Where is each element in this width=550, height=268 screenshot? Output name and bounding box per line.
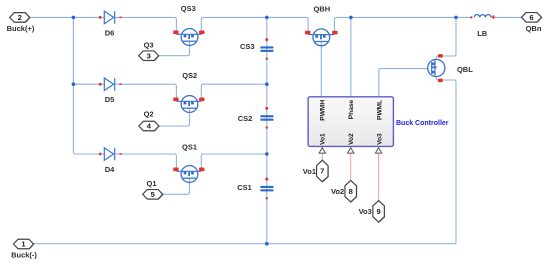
transistor QS2	[173, 71, 204, 112]
svg-text:Vo1: Vo1	[320, 133, 327, 145]
wire Vo1 input (salmon)	[321, 153, 323, 160]
port 3 Q3	[139, 41, 160, 62]
wire Phase tap from top rail	[350, 17, 352, 97]
wire QS1 source rise to CS bus	[201, 154, 266, 171]
wire top rail left from Buck(+) to D6	[30, 16, 105, 18]
svg-text:Vo2: Vo2	[331, 187, 344, 196]
wire QBL drain from top rail junction	[436, 17, 456, 59]
port 4 Q2	[139, 110, 160, 132]
svg-text:PWMH: PWMH	[320, 100, 327, 121]
transistor QS1	[173, 142, 204, 182]
svg-text:CS2: CS2	[238, 114, 253, 123]
svg-text:8: 8	[349, 187, 353, 196]
svg-text:QBL: QBL	[457, 65, 473, 74]
capacitor CS3	[240, 38, 273, 60]
svg-text:Phase: Phase	[348, 99, 355, 119]
diode D4	[99, 148, 122, 174]
node junction top-left	[72, 16, 76, 20]
wire QBH gate to PWMH pin	[320, 42, 322, 97]
wire QS1 gate to port 5	[163, 178, 190, 194]
svg-text:CS3: CS3	[240, 42, 255, 51]
svg-text:Buck(+): Buck(+)	[7, 24, 35, 33]
wire left bus vertical	[73, 17, 104, 154]
node junction CS bus top	[265, 16, 269, 20]
port 2 Buck(+)	[7, 13, 35, 33]
svg-text:QBH: QBH	[313, 5, 330, 14]
diode D6	[99, 11, 122, 37]
wire bottom rail from Buck(-)	[34, 243, 457, 245]
Buck Controller U1	[308, 97, 449, 147]
svg-text:D4: D4	[105, 165, 115, 174]
svg-text:Q2: Q2	[144, 110, 154, 119]
wire LB to port QBn	[494, 16, 522, 18]
wire QS2 gate to port 4	[159, 108, 190, 126]
port 7 Vo1	[303, 160, 329, 182]
port 1 Buck(-)	[11, 239, 37, 259]
svg-text:Vo2: Vo2	[348, 133, 355, 145]
svg-text:QBn: QBn	[526, 24, 542, 33]
wire QS3 source rise to QBH drain drop	[201, 17, 308, 34]
svg-text:Buck(-): Buck(-)	[11, 250, 37, 259]
wire D4 cathode to QS1 drain drop	[116, 154, 177, 171]
svg-text:Vo3: Vo3	[376, 133, 383, 145]
svg-text:PWML: PWML	[376, 100, 383, 120]
svg-text:QS2: QS2	[182, 71, 197, 80]
wire QS2 source rise to CS bus	[201, 84, 266, 101]
inductor LB	[470, 15, 495, 38]
node junction CS bus row2	[265, 82, 269, 86]
wire row2 from bus to D5	[73, 83, 104, 85]
wire Vo3 input (salmon)	[378, 153, 380, 201]
pin arrowhead Vo3	[375, 148, 381, 153]
svg-text:QS3: QS3	[181, 4, 196, 13]
port 9 Vo3	[359, 201, 386, 223]
wire D5 cathode to QS2 drain drop	[116, 84, 177, 101]
capacitor CS2	[238, 107, 274, 129]
svg-text:3: 3	[147, 51, 151, 60]
node junction QBL drain tap	[454, 16, 458, 20]
svg-text:CS1: CS1	[237, 183, 252, 192]
svg-text:Q1: Q1	[146, 179, 156, 188]
node junction CS bus row3	[265, 152, 269, 156]
pin arrowhead Vo1	[319, 148, 325, 153]
transistor QBL	[428, 54, 474, 82]
wire PWML to QBL gate	[379, 69, 428, 97]
port 5 Q1	[143, 179, 164, 200]
port 8 Vo2	[331, 180, 357, 202]
wire QBH source rise to inductor LB	[334, 17, 471, 34]
svg-text:Vo1: Vo1	[303, 167, 316, 176]
node junction CS bus bottom	[265, 242, 269, 246]
transistor QBH	[305, 5, 338, 46]
wire Vo2 input (salmon)	[350, 153, 352, 181]
wire capacitor bus vertical	[266, 17, 268, 243]
diode D5	[99, 78, 122, 104]
svg-text:D5: D5	[105, 95, 115, 104]
svg-text:Q3: Q3	[144, 41, 154, 50]
svg-text:Buck Controller: Buck Controller	[396, 120, 449, 127]
svg-text:Vo3: Vo3	[359, 207, 372, 216]
node junction row2-left	[72, 82, 76, 86]
svg-text:9: 9	[376, 207, 380, 216]
svg-text:2: 2	[18, 13, 22, 22]
pin arrowhead Vo2	[348, 148, 354, 153]
port 6 QBn	[522, 13, 543, 34]
svg-text:7: 7	[320, 167, 324, 176]
svg-text:D6: D6	[105, 28, 115, 37]
svg-text:QS1: QS1	[182, 142, 197, 151]
svg-text:6: 6	[529, 13, 533, 22]
capacitor CS1	[237, 178, 273, 200]
wire QS3 gate to port 3	[159, 41, 190, 56]
wire QBL source to bottom rail	[436, 76, 456, 243]
svg-text:LB: LB	[477, 29, 488, 38]
transistor QS3	[173, 4, 204, 45]
wire D6 cathode to QS3 drain drop	[116, 17, 177, 34]
node junction Phase tap	[349, 16, 353, 20]
